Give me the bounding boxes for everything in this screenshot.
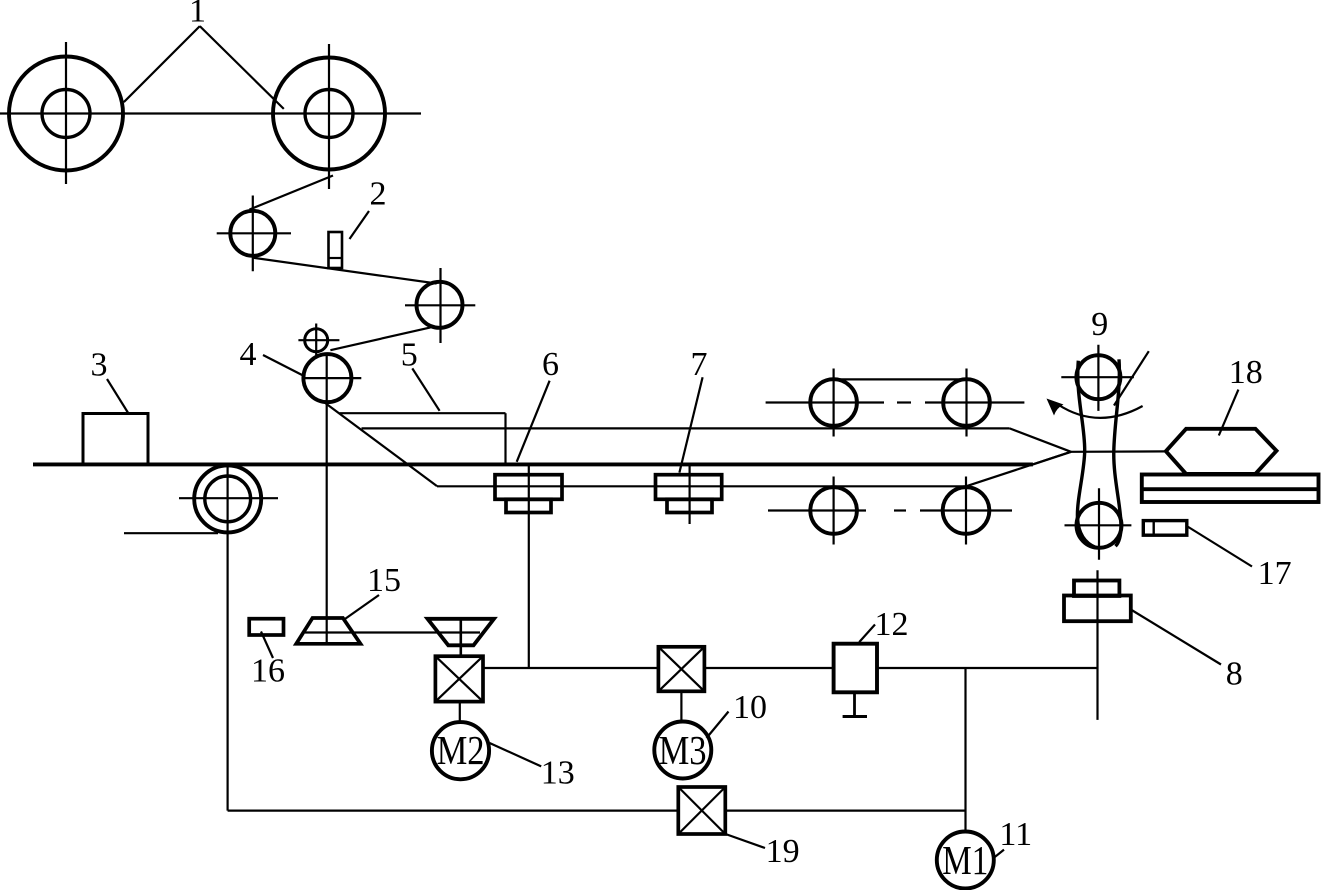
svg-text:16: 16 xyxy=(251,653,285,690)
svg-text:M3: M3 xyxy=(659,727,707,773)
svg-text:11: 11 xyxy=(999,816,1032,853)
svg-text:15: 15 xyxy=(367,562,401,599)
svg-text:M2: M2 xyxy=(437,727,485,773)
svg-text:7: 7 xyxy=(691,346,708,383)
svg-text:18: 18 xyxy=(1229,354,1263,391)
svg-text:3: 3 xyxy=(91,347,108,384)
svg-text:4: 4 xyxy=(240,336,257,373)
svg-text:6: 6 xyxy=(542,346,559,383)
svg-text:5: 5 xyxy=(401,336,418,373)
svg-text:2: 2 xyxy=(370,176,387,213)
svg-text:12: 12 xyxy=(875,606,909,643)
svg-text:10: 10 xyxy=(733,689,767,726)
svg-text:19: 19 xyxy=(766,833,800,870)
svg-text:13: 13 xyxy=(541,754,575,791)
svg-text:8: 8 xyxy=(1226,655,1243,692)
svg-text:1: 1 xyxy=(189,0,206,30)
svg-text:17: 17 xyxy=(1258,555,1292,592)
svg-text:M1: M1 xyxy=(942,837,988,883)
svg-text:9: 9 xyxy=(1091,306,1108,343)
